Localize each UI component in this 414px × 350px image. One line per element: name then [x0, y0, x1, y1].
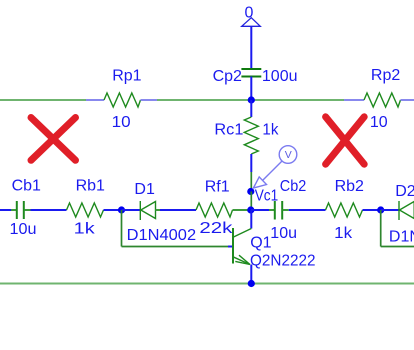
svg-text:D2: D2 — [395, 183, 414, 200]
svg-text:1k: 1k — [74, 220, 96, 237]
svg-text:Q2N2222: Q2N2222 — [250, 253, 316, 270]
wire Rc1 to Vc1 node — [250, 172, 252, 192]
resistor Rc1 — [214, 100, 279, 172]
svg-text:D1N4002: D1N4002 — [389, 228, 414, 245]
resistor Rp1 — [86, 68, 157, 132]
wire right drop vertical — [380, 210, 382, 247]
wire Cb2 to Rb2 — [289, 209, 326, 211]
wire node to D2 — [381, 209, 399, 211]
svg-text:1k: 1k — [262, 122, 279, 139]
svg-text:Cb1: Cb1 — [12, 178, 41, 195]
svg-text:Cp2: Cp2 — [213, 68, 242, 85]
transistor Q1 — [233, 228, 316, 270]
red X right — [326, 117, 365, 164]
svg-text:D1N4002: D1N4002 — [127, 227, 197, 244]
diode D1 — [127, 181, 197, 244]
wire Rb1 to node — [104, 209, 122, 211]
svg-text:Rc1: Rc1 — [214, 122, 243, 139]
node base-left junction — [118, 206, 125, 213]
svg-text:22k: 22k — [199, 220, 233, 237]
svg-text:10: 10 — [112, 114, 131, 131]
node base-right junction — [377, 206, 384, 213]
resistor Rf1 — [196, 178, 251, 237]
svg-text:Rb2: Rb2 — [335, 178, 364, 195]
voltage probe V — [253, 146, 296, 188]
resistor Rp2 — [344, 67, 414, 131]
node junction top rail — [248, 96, 255, 103]
wire top rail left segment — [0, 99, 86, 101]
wire Cb1 to Rb1 — [31, 209, 67, 211]
wire top rail middle segment — [157, 99, 344, 101]
svg-text:Q1: Q1 — [250, 235, 271, 252]
wire node to Cb2 — [251, 209, 269, 211]
svg-text:Rb1: Rb1 — [76, 178, 105, 195]
node junction bottom rail — [248, 280, 255, 287]
capacitor Cb2 — [269, 178, 306, 242]
wire ground stem — [250, 26, 252, 69]
wire bottom rail — [0, 283, 414, 285]
svg-text:D1: D1 — [134, 181, 155, 198]
resistor Rb1 — [67, 178, 106, 238]
svg-text:Cb2: Cb2 — [280, 178, 307, 195]
wire node to D1 — [122, 209, 141, 211]
wire right drop horizontal — [381, 246, 414, 248]
svg-text:1k: 1k — [334, 225, 353, 242]
svg-text:10u: 10u — [270, 225, 297, 242]
wire D1 to Rf1 — [160, 209, 196, 211]
capacitor Cb1 — [10, 178, 42, 238]
wire left drop vertical — [121, 210, 123, 247]
diode D2 — [389, 183, 414, 245]
svg-text:10: 10 — [370, 114, 388, 131]
wire Cp2 to rail — [250, 77, 252, 101]
wire Rb2 to node — [363, 209, 381, 211]
svg-text:10u: 10u — [10, 221, 37, 238]
wire middle row left edge — [0, 209, 11, 211]
ground 0 — [242, 5, 261, 27]
capacitor Cp2 — [213, 68, 298, 85]
wire collector — [250, 210, 252, 229]
red X left — [31, 118, 76, 161]
resistor Rb2 — [326, 178, 365, 242]
node Rf1/Cb2 junction — [247, 206, 254, 213]
wire emitter to rail — [250, 265, 252, 284]
wire Vc1 to row — [250, 192, 252, 211]
svg-text:100u: 100u — [262, 68, 298, 85]
svg-text:Rp2: Rp2 — [371, 67, 400, 84]
svg-text:Rp1: Rp1 — [112, 68, 141, 85]
svg-text:V: V — [285, 149, 292, 161]
node Vc1 — [247, 188, 254, 195]
svg-text:Rf1: Rf1 — [205, 178, 230, 195]
wire base pin stub — [228, 246, 233, 248]
wire left drop horizontal to base — [122, 246, 229, 248]
